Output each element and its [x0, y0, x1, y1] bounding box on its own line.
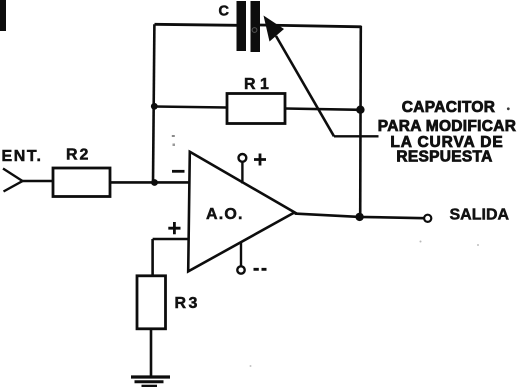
wire: R1 to right node	[285, 109, 361, 110]
svg-text:CAPACITOR: CAPACITOR	[402, 99, 495, 116]
node: junction right bus / R1	[356, 106, 364, 114]
resistor R2	[53, 168, 110, 197]
wire: right vertical bus x=360.8 from top corner down to output node	[359, 26, 362, 217]
svg-text:C: C	[219, 4, 230, 20]
svg-text:ENT.: ENT.	[2, 148, 43, 165]
annotation arrow head	[264, 16, 285, 42]
wire: top feedback from left corner to capacitor	[155, 24, 238, 25]
pin: V+ supply line	[241, 162, 243, 184]
wire: R2 to op-amp minus input	[110, 181, 190, 184]
node: junction left bus / minus input	[151, 179, 158, 186]
wire: input to R2	[23, 180, 54, 182]
wire: left vertical bus x=154.5 from top corner down to minus-input node	[153, 24, 154, 183]
svg-text:RESPUESTA: RESPUESTA	[396, 148, 492, 165]
scan mark top-left corner	[0, 0, 6, 31]
pin: V+ supply terminal circle	[239, 154, 247, 162]
label + (supply)	[254, 154, 266, 166]
scan speckles	[507, 107, 510, 110]
pin: V- supply line	[240, 243, 242, 267]
svg-text:R3: R3	[175, 295, 200, 312]
svg-text:R2: R2	[66, 147, 90, 164]
annotation arrow shaft pointing at capacitor	[276, 36, 334, 136]
svg-text:A.O.: A.O.	[206, 206, 244, 223]
resistor R1	[227, 94, 285, 124]
wire: left node to R1	[155, 107, 228, 108]
label -- (supply)	[254, 268, 267, 271]
minus input sign	[172, 170, 185, 173]
capacitor C plate 2	[251, 1, 261, 52]
plus input sign	[168, 222, 180, 234]
resistor R3	[137, 276, 166, 329]
pin: V- supply terminal circle	[237, 266, 244, 273]
wire: plus input down to R3	[151, 239, 154, 276]
op-amp U1 triangle	[188, 152, 294, 272]
terminal: SALIDA open circle	[424, 215, 431, 222]
svg-text:R 1: R 1	[244, 76, 269, 93]
ground	[131, 375, 170, 378]
wire: op-amp output to SALIDA terminal	[295, 214, 424, 219]
wire: top feedback from capacitor to right corner	[260, 25, 362, 27]
node: junction output / right bus	[355, 213, 363, 221]
input terminal arrow	[3, 169, 23, 192]
scan artifact small ring between plates	[252, 28, 257, 33]
capacitor C plate 1	[237, 1, 247, 51]
annotation arrow horizontal tail	[334, 135, 379, 137]
svg-text:SALIDA: SALIDA	[450, 207, 510, 224]
node: junction left bus / R1	[151, 103, 158, 110]
wire: R3 to ground	[150, 329, 153, 376]
annotation text: CAPACITOR PARA MODIFICAR LA CURVA DE RESPUESTA	[378, 99, 517, 165]
svg-text:PARA MODIFICAR: PARA MODIFICAR	[378, 118, 517, 135]
wire: plus input horizontal	[153, 238, 188, 241]
